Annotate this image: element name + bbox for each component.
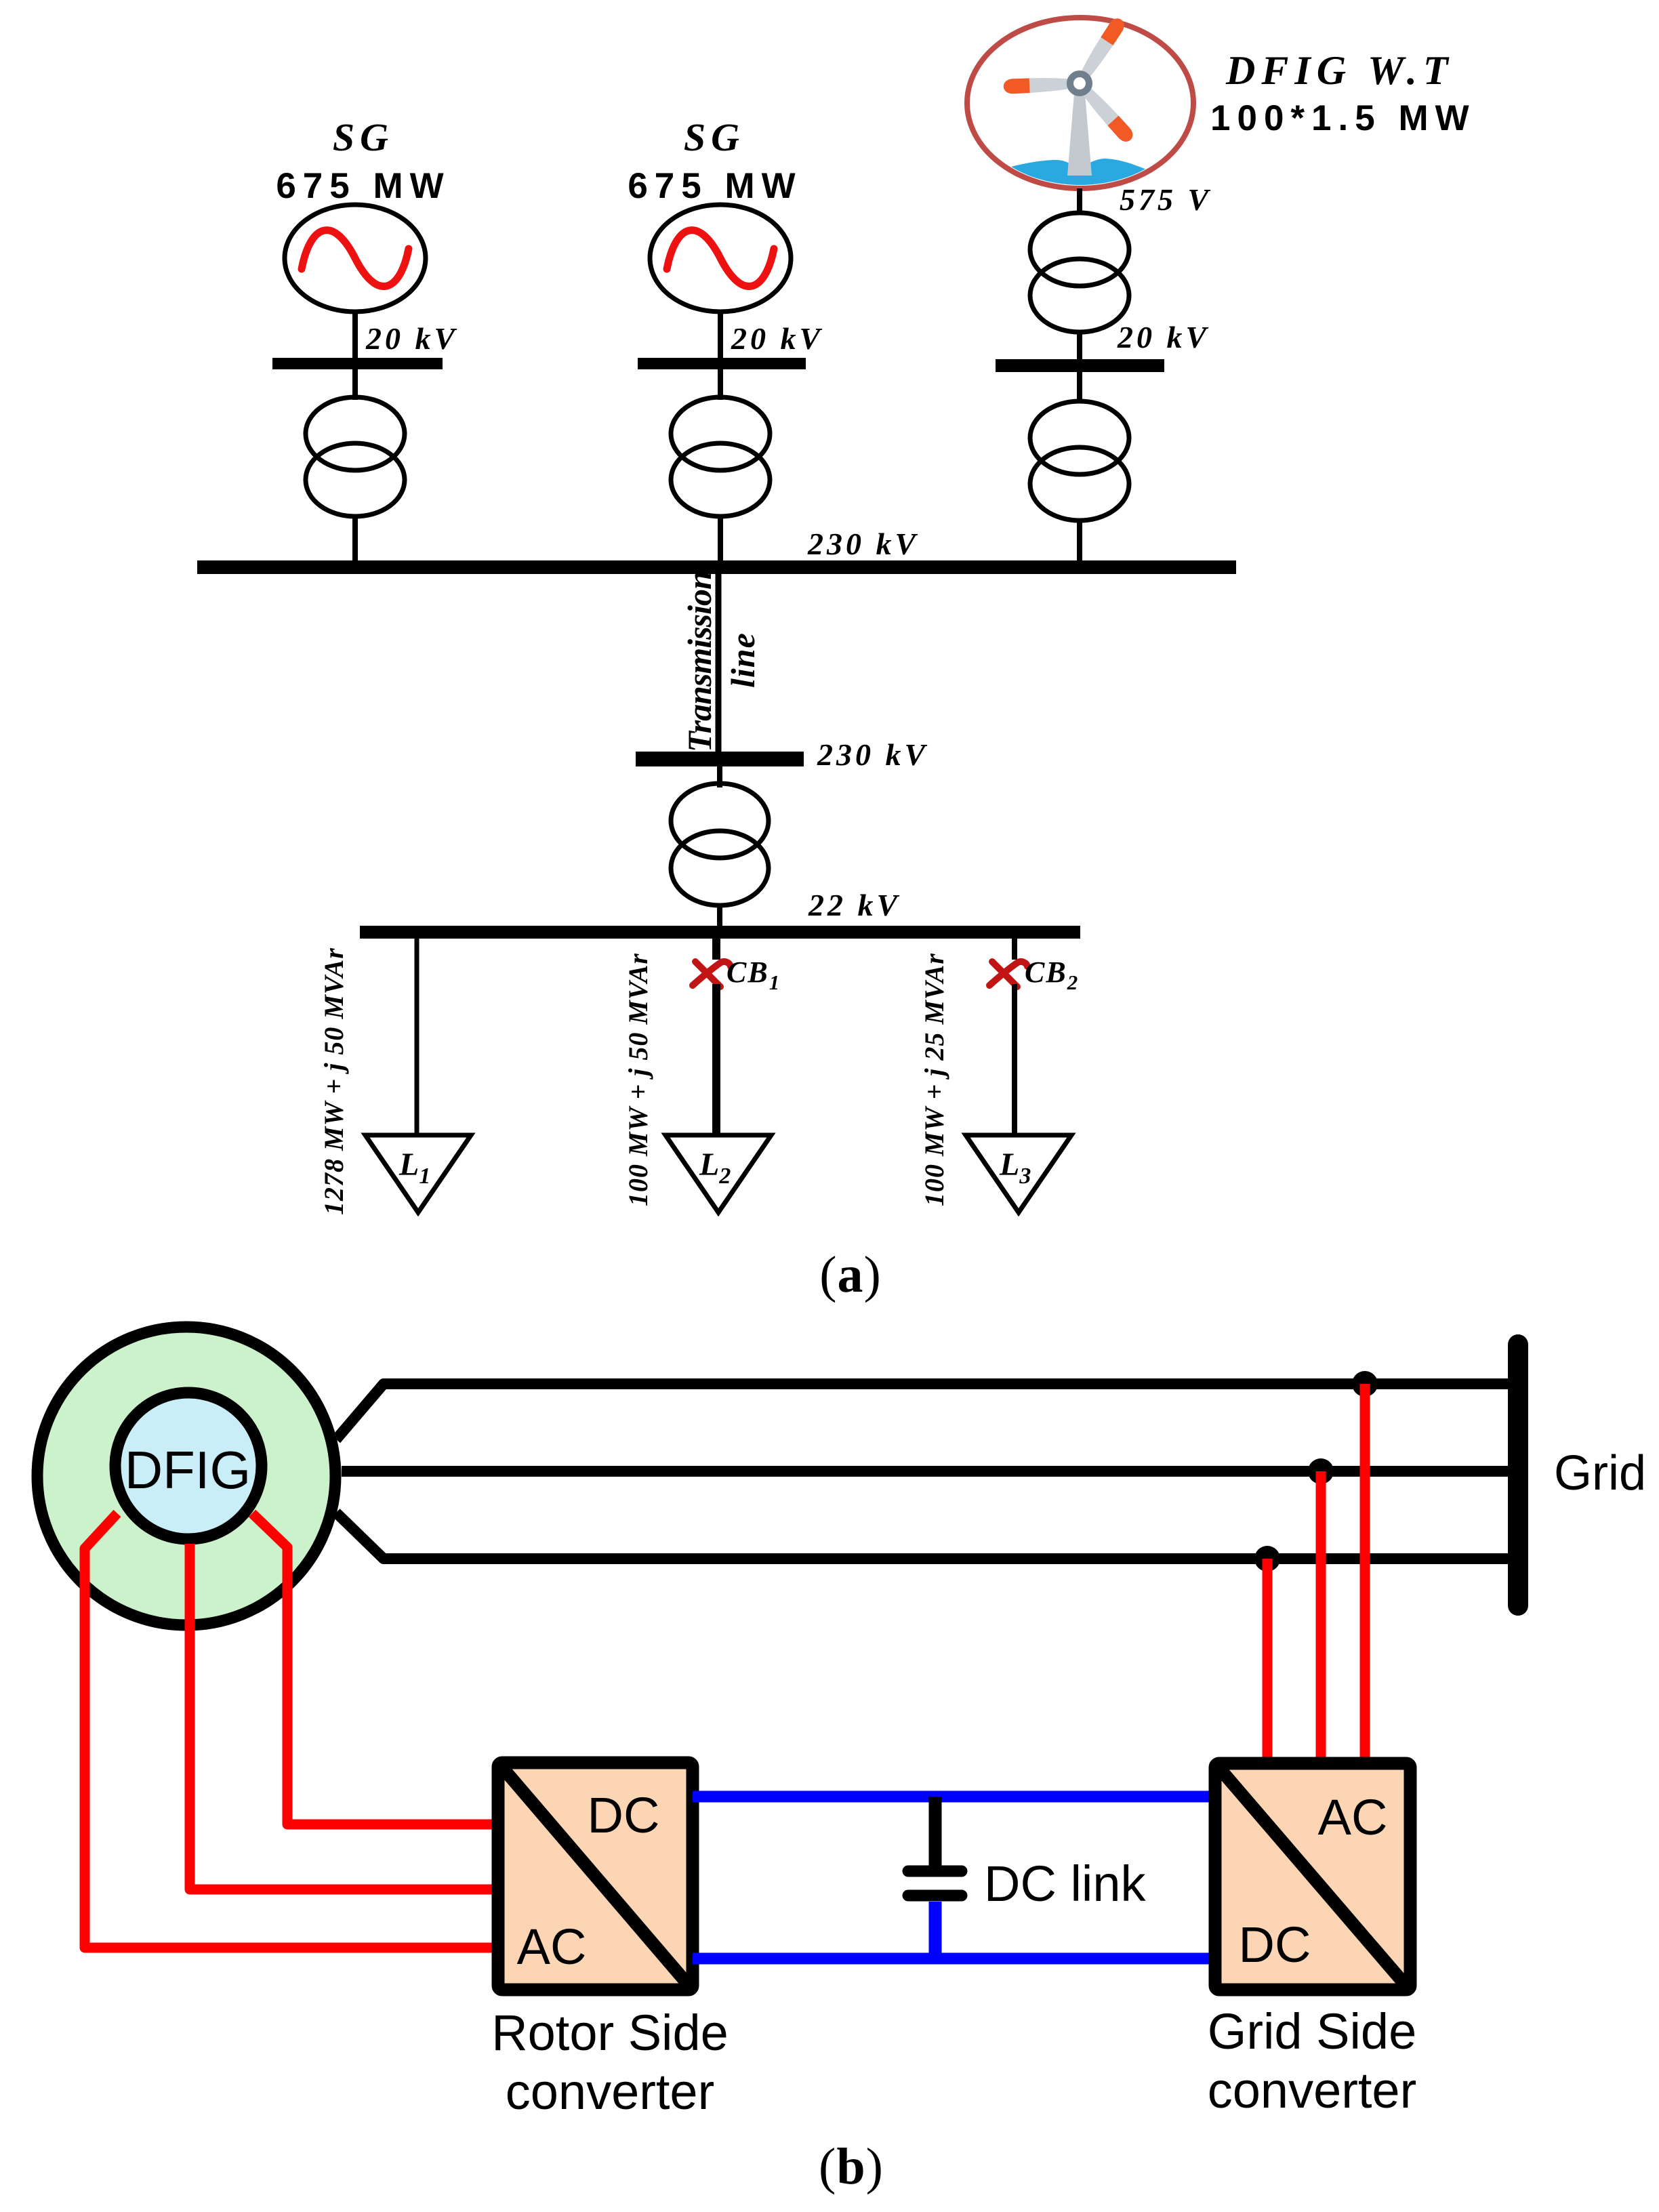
generator SG1 sine symbol [302,230,409,287]
wind turbine blade left [1003,77,1071,94]
wire T2 to 230kV bus [718,516,723,567]
svg-text:20 kV: 20 kV [731,321,823,356]
capacitor DC link plate bottom [908,1890,962,1902]
svg-text:22 kV: 22 kV [808,888,901,922]
wire rotor phase 2 red [190,1544,502,1889]
capacitor DC link plate top [908,1866,962,1877]
capacitor DC link lead bottom blue [929,1902,942,1959]
node Grid bus bar [1508,1345,1528,1605]
svg-text:DC: DC [1239,1917,1311,1973]
node 20 kV bus 2 [638,358,806,369]
svg-text:SG: SG [684,115,745,159]
svg-text:DFIG W.T: DFIG W.T [1225,48,1454,93]
svg-text:DFIG: DFIG [125,1440,251,1500]
wire rotor phase 3 red [85,1513,502,1948]
wire transmission line [716,574,722,759]
wire SG2 to 20kV bus [718,312,723,400]
svg-text:1278 MW + j 50 MVAr: 1278 MW + j 50 MVAr [319,947,349,1215]
breaker CB2 cross [989,962,1027,987]
wire DC link bottom blue [693,1953,1215,1965]
wire stator phase A [336,1384,1513,1439]
svg-text:230 kV: 230 kV [817,737,928,772]
wire DFIG to T3 [1077,188,1082,214]
breaker CB1 cross [693,962,731,987]
svg-text:converter: converter [506,2064,714,2120]
wind turbine tower [1067,94,1092,176]
wire stator phase C [336,1513,1513,1559]
wire T1 to 230kV bus [352,516,358,567]
wire load L2 lower [712,984,720,1136]
converter grid side box [1215,1763,1410,1990]
svg-text:converter: converter [1208,2062,1416,2118]
wire T3 to T4 [1077,332,1082,403]
svg-text:Transmission: Transmission [680,571,718,752]
converter grid side diagonal [1220,1769,1405,1984]
wire GSC phase B red [1316,1471,1326,1770]
wire stator phase B [342,1466,1513,1477]
transformer T3 [1030,213,1129,332]
wind turbine hub [1070,74,1089,93]
converter rotor side diagonal [503,1768,688,1984]
wire T4 to 230kV bus [1077,520,1082,567]
load L1 triangle [365,1135,471,1212]
transformer T4 [1030,401,1129,520]
DFIG rotor circle [115,1393,262,1539]
node 230 kV bus 2 [636,752,804,766]
svg-text:675 MW: 675 MW [276,166,450,206]
wire bus to T5 [717,766,722,787]
transformer T1 [306,397,405,516]
svg-text:100*1.5 MW: 100*1.5 MW [1210,98,1476,138]
transformer T5 [671,783,769,905]
svg-text:line: line [724,632,762,688]
svg-text:20 kV: 20 kV [1117,320,1210,354]
svg-text:(a): (a) [819,1246,882,1303]
svg-text:20 kV: 20 kV [365,321,458,356]
svg-text:DC: DC [588,1787,660,1843]
wire load L3 upper [1012,939,1017,960]
generator SG2 circle [650,205,791,312]
load L3 triangle [966,1135,1071,1212]
wire GSC phase C red [1263,1559,1273,1770]
converter rotor side box [498,1763,693,1990]
capacitor DC link lead top [929,1797,942,1866]
svg-text:DC link: DC link [984,1856,1146,1912]
wind turbine water [975,159,1163,199]
svg-text:(b): (b) [819,2138,884,2195]
load L2 triangle [665,1135,771,1212]
wire load L2 upper [712,939,720,960]
svg-text:AC: AC [1318,1789,1388,1845]
node junction dot phase A [1352,1371,1378,1397]
svg-text:100 MW + j 50 MVAr: 100 MW + j 50 MVAr [623,953,653,1206]
node junction dot phase B [1308,1458,1334,1484]
wire DC link top blue [693,1791,1215,1803]
svg-text:Grid: Grid [1554,1446,1646,1500]
wind turbine blade lower right [1080,85,1136,144]
node 20 kV bus 3 [996,359,1164,372]
DFIG stator ring [37,1327,335,1625]
generator SG2 sine symbol [667,230,774,287]
svg-text:100 MW + j 25 MVAr: 100 MW + j 25 MVAr [919,953,949,1206]
node 22 kV bus [360,926,1080,939]
wire load L3 lower [1012,984,1017,1136]
wire rotor phase 1 red [252,1513,502,1824]
svg-text:Grid Side: Grid Side [1208,2003,1416,2060]
transformer T2 [671,397,770,516]
svg-text:230 kV: 230 kV [807,527,919,561]
svg-text:Rotor Side: Rotor Side [491,2005,729,2061]
svg-text:SG: SG [333,115,394,159]
wire T5 to 22kV bus [717,905,722,927]
wire load L1 [415,939,419,1136]
generator SG1 circle [285,205,426,312]
wire GSC phase A red [1360,1384,1370,1770]
svg-text:575 V: 575 V [1120,182,1212,217]
wire SG1 to 20kV bus [352,312,358,400]
svg-text:AC: AC [517,1919,587,1975]
DFIG wind turbine ellipse [967,18,1193,188]
svg-text:675 MW: 675 MW [628,166,802,206]
node junction dot phase C [1254,1546,1280,1572]
wind turbine blade upper right [1078,16,1128,80]
node 230 kV bus [197,560,1236,574]
node 20 kV bus 1 [272,358,443,369]
